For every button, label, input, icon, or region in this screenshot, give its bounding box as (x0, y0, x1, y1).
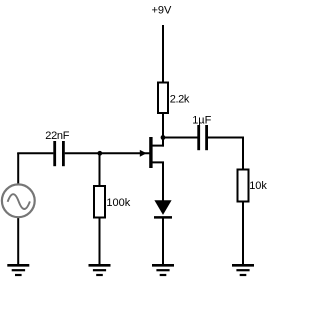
svg-text:22nF: 22nF (45, 130, 69, 142)
svg-text:10k: 10k (249, 180, 267, 192)
svg-text:1µF: 1µF (192, 115, 211, 127)
svg-text:+9V: +9V (152, 5, 173, 17)
svg-text:100k: 100k (106, 197, 130, 209)
svg-text:2.2k: 2.2k (170, 94, 190, 106)
